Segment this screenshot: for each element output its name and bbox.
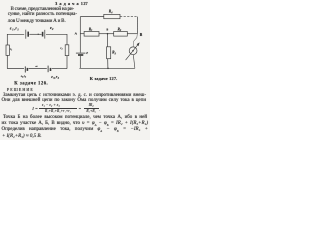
left rail upper [79, 17, 81, 53]
svg-text:ε1,r1: ε1,r1 [10, 26, 19, 32]
solution line 4 [2, 121, 149, 127]
left rail [6, 34, 8, 45]
svg-text:ε3,r3: ε3,r3 [51, 74, 59, 80]
resistor R3 [107, 47, 111, 59]
middle wire mid [99, 33, 114, 35]
node B dot [107, 33, 109, 35]
svg-text:К задаче 126.: К задаче 126. [14, 81, 48, 86]
galvanometer branch lower [133, 55, 135, 69]
middle wire left [80, 33, 84, 35]
wire top left [7, 33, 24, 35]
current mark [35, 65, 37, 67]
wire top right [46, 33, 67, 35]
left rail lower [6, 55, 8, 68]
wire top mid [29, 33, 41, 35]
svg-text:R3: R3 [112, 51, 116, 56]
battery E2 [42, 32, 44, 37]
battery E [76, 52, 86, 54]
svg-text:Б: Б [107, 29, 109, 32]
problem text line 3 [8, 18, 66, 24]
solution line 1 [3, 93, 146, 98]
galvanometer G [129, 47, 137, 55]
svg-text:ε4,r4: ε4,r4 [21, 74, 27, 79]
svg-text:R4: R4 [109, 10, 113, 15]
middle wire right [127, 33, 137, 35]
wire bottom mid [29, 68, 47, 70]
equals [79, 106, 81, 111]
junction dot bottom [107, 68, 109, 70]
svg-text:ε2: ε2 [50, 25, 54, 31]
wire top right [120, 16, 138, 18]
header Задача 127 [55, 1, 88, 6]
svg-text:В: В [140, 33, 143, 37]
svg-text:А: А [75, 31, 78, 35]
wire bottom right [52, 68, 67, 70]
solution line 5 [2, 127, 149, 133]
wire bottom left [7, 68, 24, 70]
fraction 1 [39, 103, 76, 113]
right rail upper [136, 17, 138, 34]
resistor r2 (right box) [65, 45, 69, 56]
resistor R1 [84, 32, 99, 37]
section header РЕШЕНИЕ [7, 87, 34, 92]
branch wire upper [107, 34, 109, 47]
right rail [66, 34, 68, 45]
wire top left [80, 16, 104, 18]
resistor r1 (left box) [6, 45, 9, 55]
solution line 6 [2, 134, 42, 139]
problem text line 1 [11, 6, 75, 12]
problem text line 2 [8, 11, 77, 17]
battery E4 [24, 66, 26, 72]
galvanometer arrow [126, 43, 139, 60]
svg-text:ε: ε [86, 50, 88, 55]
right rail lower [66, 56, 68, 69]
battery E1 [25, 30, 27, 39]
resistor R4 [104, 14, 120, 18]
galvanometer branch upper [133, 34, 137, 47]
battery E3 [47, 66, 49, 73]
resistor R2 [114, 32, 128, 37]
solution line 3 [3, 115, 147, 120]
bottom wire [79, 67, 134, 69]
fraction 2 [84, 103, 99, 113]
solution line 2 [2, 98, 147, 103]
svg-text:r2: r2 [60, 46, 62, 51]
svg-text:r1: r1 [10, 47, 12, 52]
left rail lower [79, 56, 81, 68]
formula I = frac [32, 106, 38, 111]
svg-text:К задаче 127.: К задаче 127. [90, 76, 118, 81]
node dot top [38, 34, 39, 35]
branch wire lower [107, 59, 109, 69]
